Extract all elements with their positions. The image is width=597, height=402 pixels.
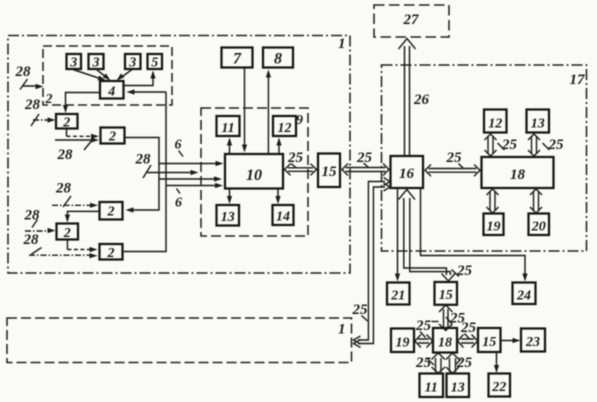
svg-text:25: 25 xyxy=(415,355,432,371)
svg-text:3: 3 xyxy=(128,56,136,71)
svg-text:14: 14 xyxy=(276,210,290,225)
svg-text:5: 5 xyxy=(151,56,158,71)
svg-text:25: 25 xyxy=(352,302,369,318)
svg-text:19: 19 xyxy=(396,336,410,351)
svg-text:12: 12 xyxy=(488,117,502,132)
svg-text:28: 28 xyxy=(24,97,41,113)
svg-text:26: 26 xyxy=(413,92,430,108)
svg-text:18: 18 xyxy=(510,167,526,183)
svg-text:25: 25 xyxy=(548,137,565,153)
svg-text:15: 15 xyxy=(439,288,453,303)
svg-text:28: 28 xyxy=(55,181,72,197)
svg-text:1: 1 xyxy=(338,36,346,52)
svg-text:13: 13 xyxy=(221,210,235,225)
svg-text:1: 1 xyxy=(338,322,346,338)
svg-text:25: 25 xyxy=(287,150,304,166)
svg-text:22: 22 xyxy=(491,380,506,395)
svg-text:6: 6 xyxy=(175,138,182,153)
svg-text:19: 19 xyxy=(487,220,501,235)
svg-text:18: 18 xyxy=(438,336,452,351)
svg-text:23: 23 xyxy=(525,335,540,350)
svg-text:6: 6 xyxy=(175,196,182,211)
svg-text:12: 12 xyxy=(278,121,292,136)
svg-text:16: 16 xyxy=(399,166,415,182)
svg-text:13: 13 xyxy=(531,117,545,132)
svg-text:11: 11 xyxy=(425,381,438,396)
svg-text:13: 13 xyxy=(451,381,465,396)
svg-text:4: 4 xyxy=(107,85,115,100)
svg-text:28: 28 xyxy=(23,232,40,248)
svg-text:28: 28 xyxy=(15,64,32,80)
svg-text:2: 2 xyxy=(107,205,115,220)
svg-text:7: 7 xyxy=(233,51,242,68)
svg-text:21: 21 xyxy=(390,289,405,304)
svg-text:11: 11 xyxy=(221,121,234,136)
svg-text:25: 25 xyxy=(415,318,432,334)
svg-text:17: 17 xyxy=(570,72,586,88)
svg-text:25: 25 xyxy=(501,137,518,153)
svg-text:28: 28 xyxy=(24,208,41,224)
svg-text:8: 8 xyxy=(274,51,282,68)
svg-text:28: 28 xyxy=(57,147,74,163)
svg-text:9: 9 xyxy=(296,113,303,128)
svg-text:2: 2 xyxy=(45,92,53,107)
svg-text:2: 2 xyxy=(107,246,115,261)
svg-text:2: 2 xyxy=(62,116,70,131)
svg-text:25: 25 xyxy=(456,355,473,371)
svg-text:10: 10 xyxy=(246,167,262,184)
svg-text:20: 20 xyxy=(531,220,546,235)
svg-text:2: 2 xyxy=(108,130,116,145)
svg-text:25: 25 xyxy=(460,320,477,336)
svg-text:3: 3 xyxy=(69,56,77,71)
svg-text:24: 24 xyxy=(516,289,531,304)
svg-text:3: 3 xyxy=(92,56,100,71)
svg-text:15: 15 xyxy=(322,164,338,180)
svg-text:15: 15 xyxy=(482,335,496,350)
svg-text:2: 2 xyxy=(63,226,71,241)
svg-text:28: 28 xyxy=(135,152,152,168)
svg-text:27: 27 xyxy=(403,12,420,28)
